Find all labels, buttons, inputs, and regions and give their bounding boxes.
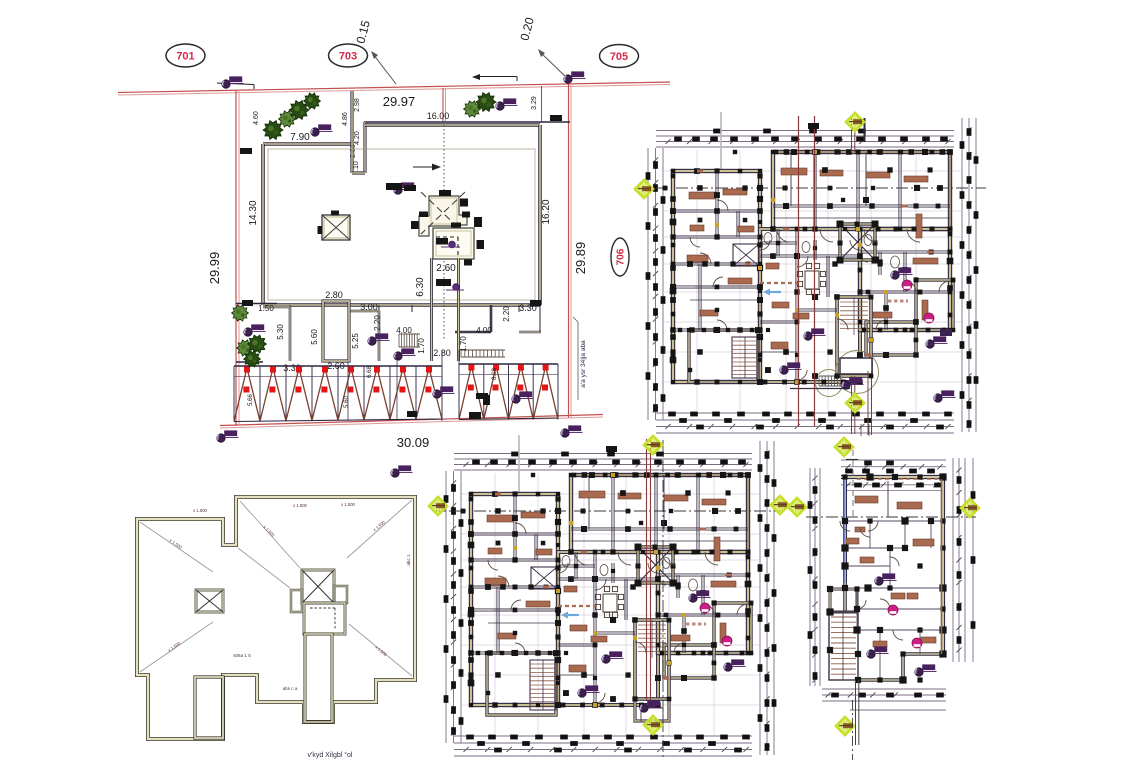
building bottom wall [263,303,540,307]
entrance tower [837,297,871,376]
svg-text:29.97: 29.97 [383,94,416,109]
grey gridline vertical [518,435,520,494]
blue arrow [766,291,781,293]
exterior wall upper block [571,475,748,552]
plot boundary left (red) [235,90,237,426]
stair hatch near entry [398,334,400,347]
centreline horizontal [636,187,986,189]
exterior wall upper block [773,152,950,229]
svg-text:3.00: 3.00 [360,302,378,312]
svg-text:x 1.500: x 1.500 [193,508,207,513]
closet X left block [733,244,759,266]
boundary stub 703 (red) [442,88,444,122]
label ellipse 705 [600,45,639,68]
side plan centre verticals bottom [855,680,857,745]
svg-text:14.30: 14.30 [248,200,259,225]
beds middle [569,665,586,672]
side floor plan group (bottom-right) [788,438,979,760]
exterior wall right block [658,552,748,653]
exterior wall column rows [774,150,779,155]
exterior wall left block [471,494,558,705]
building inner face line [268,149,535,300]
svg-text:5.60: 5.60 [344,396,350,408]
svg-text:5.30: 5.30 [276,324,285,340]
side plan arcs [860,527,870,537]
survey marker bottom-right [561,429,569,437]
building left wall [261,144,265,305]
svg-text:7.90: 7.90 [290,132,310,143]
survey marker inside top [311,128,319,136]
beds upper rooms [781,168,807,175]
entrance tower stair [638,624,666,626]
svg-text:4.60: 4.60 [253,111,260,125]
svg-text:v'kyd Xilgbl °ol: v'kyd Xilgbl °ol [308,751,353,759]
svg-text:2.20: 2.20 [502,306,511,322]
beds left block [689,192,716,199]
parking extension verticals [347,361,349,420]
survey marker bottom-left [217,434,225,442]
svg-text:2.20: 2.20 [373,315,382,331]
svg-text:29.89: 29.89 [573,242,588,275]
parking row 1 frame [234,365,442,367]
interior walls right block [860,250,950,252]
svg-text:3.29: 3.29 [531,96,538,110]
bottom-left inner block [689,330,758,382]
side plan dim cols left [809,468,811,686]
site plan group [118,16,670,450]
roof plan group [137,497,415,759]
survey marker below stair [394,352,402,360]
survey marker top-right trees [496,102,504,110]
roof cross square with X [302,570,334,603]
survey marker 5.25 [368,337,376,345]
label ellipse 706 (rotated) [611,238,629,276]
svg-text:4.00: 4.00 [476,326,492,335]
upper floor plan (top-right) [636,112,986,435]
entrance porch circles [836,351,879,394]
tower cross plus-shape [419,196,467,236]
svg-text:705: 705 [610,51,628,63]
extension line clutter [664,170,961,172]
dotted centreline [443,125,445,340]
exterior wall middle block [760,229,860,382]
door arcs [777,229,790,242]
survey marker near 705 [564,75,572,83]
svg-text:703: 703 [339,51,357,63]
side plan interior walls [887,481,889,517]
svg-text:a'a ysr 34|ja aba: a'a ysr 34|ja aba [580,340,587,388]
survey marker top-left [222,80,230,88]
svg-text:1.70: 1.70 [459,336,468,352]
upper plan markers [846,113,864,131]
small brown dash accents [495,493,501,496]
far right room [916,280,953,330]
exterior wall column rows [572,473,577,478]
label ellipse 701 [166,44,205,67]
svg-text:2.60: 2.60 [436,263,456,274]
parking row 2 frame [459,363,558,365]
bay dividers bottom [289,305,291,312]
extension line clutter [462,493,759,495]
site trees top-right pair [464,101,481,117]
centreline horizontal [434,510,784,512]
svg-text:29.99: 29.99 [207,252,222,285]
svg-text:2.80: 2.80 [325,290,343,300]
bathroom fixtures [764,233,772,244]
roof hip diagonals [140,522,213,572]
brown dashed corridor line [558,605,598,607]
svg-text:30.09: 30.09 [397,435,430,450]
north arrow [413,166,439,168]
entrance tower [635,620,669,699]
yellow accents at junctions [569,521,573,525]
brown tint on exterior walls [571,474,748,476]
entrance porch rect [840,358,872,374]
roof outline [137,497,415,739]
extra middle walls [595,631,635,633]
svg-text:abs c a: abs c a [283,686,298,691]
leader near 705 [480,76,517,78]
beds right block [711,581,736,587]
survey marker center [394,186,402,194]
far right room [714,603,751,653]
leader 0.15 [373,54,396,84]
interior walls right block [658,573,748,575]
black rect under tower [436,279,451,286]
interior walls upper block [611,475,613,552]
survey marker parking 2 [433,390,441,398]
interior walls middle [558,577,658,579]
side plan stair block [829,612,858,680]
side plan dim rows top [841,459,946,461]
svg-text:5.66: 5.66 [248,394,254,406]
floor plan dimension rows bottom [454,735,752,737]
svg-text:s06a 1 5: s06a 1 5 [233,653,251,658]
leader near 701 [217,83,254,85]
svg-text:16.00: 16.00 [427,111,450,121]
floor plan dimension cols right [759,441,761,755]
grey gridline vertical [720,112,722,171]
tower cross black squares [439,190,451,196]
svg-text:8.08: 8.08 [492,368,498,380]
bay walls khaki [289,307,292,361]
roof small box with X [196,590,223,612]
central cross box with X [840,224,875,260]
marker above roof plan [391,469,399,477]
column squares [771,150,775,154]
svg-text:6.30: 6.30 [415,277,426,297]
svg-text:5.25: 5.25 [351,333,360,349]
floor plan dimension cols left [647,148,649,420]
svg-text:1.50: 1.50 [258,304,274,313]
floor plan dimension cols right [961,118,963,432]
side plan exterior walls [841,475,943,479]
plot boundary right (red) [568,84,570,418]
interior walls upper block [813,152,815,229]
ground plan markers [644,436,662,454]
blue arrow [564,614,579,616]
roof lower box with dashed line [304,603,345,634]
building right wall [538,125,542,305]
brown tint on exterior walls [773,151,950,153]
svg-text:x 1.500: x 1.500 [293,503,307,508]
side plan centreline [806,516,976,518]
exterior wall right block [860,229,950,330]
roof tower shaft [305,634,332,722]
svg-text:x 1.500: x 1.500 [341,502,355,507]
closet X left block [531,567,557,589]
stair bottom-left [732,337,758,378]
side plan blue line [843,479,845,583]
right lower room [664,645,714,678]
svg-text:5.60: 5.60 [310,329,319,345]
svg-text:6.68: 6.68 [367,366,373,378]
right lower room [866,322,916,355]
label ellipse 703 [329,44,368,67]
beds right block [913,258,938,264]
dining table and chairs [805,271,819,289]
entrance steps [819,375,841,377]
side plan dim rows bottom [822,688,946,690]
side plan bottom walls [858,678,903,682]
bathroom fixtures [562,556,570,567]
stair bottom-left [530,660,556,710]
floor plan dimension rows bottom [656,412,954,414]
entrance tower stair [840,301,868,303]
svg-text:701: 701 [176,51,194,63]
central cross box with X [638,547,673,583]
left planting bed [236,303,277,305]
svg-text:16.20: 16.20 [541,199,552,224]
small brown dash accents [697,170,703,173]
black rects site plan [550,115,562,121]
side plan markers [875,577,883,585]
svg-text:abc 1: abc 1 [406,554,411,566]
ramp hatch right of entry [461,349,505,351]
left-center shaft 2.60x5.60 [323,301,349,361]
plot boundary top (red) [118,82,670,93]
side plan yg markers [835,438,853,456]
beds left block [487,515,514,522]
brown dashed corridor line [760,282,800,284]
interior walls left block [673,209,760,211]
svg-text:4.86: 4.86 [342,112,349,126]
side plan column squares [842,474,847,479]
floor plan dimension rows top [656,130,954,132]
exterior wall middle block [558,552,658,705]
building outline upper-right [365,123,540,127]
dining table and chairs [603,594,617,612]
roof stair rect [195,677,223,738]
interior walls left block [471,532,558,534]
svg-text:1.70: 1.70 [417,338,426,354]
parking black rects [483,395,490,405]
column squares [569,473,573,477]
site trees left beds [232,305,249,321]
floor plan dimension rows top [454,453,752,455]
roof cross wings [291,590,302,612]
door arcs [575,552,588,565]
entrance shaft extension [635,699,669,721]
parking row 1 stalls and chevrons [233,366,235,422]
svg-text:706: 706 [616,248,627,265]
extra middle walls [797,308,837,310]
entry shaft 6.30 walls [430,258,433,361]
survey marker left bed [244,328,252,336]
leader 0.20 [540,52,568,79]
right lower bay lines [490,305,492,332]
plot boundary bottom (red) [220,415,603,426]
side plan top dashed vertical [852,450,854,520]
central box with X (stair core) [322,215,350,240]
section line pair right of entrance [867,371,869,435]
side plan door arcs pair [840,521,850,531]
upper plan maroon section lines [798,116,800,426]
building outline main [263,142,352,146]
beds upper rooms [579,491,605,498]
ground plan vertical centreline [662,440,664,757]
tower cross dashed X [421,192,465,234]
north line 16.00 (navy) [364,121,570,123]
boundary stub purple 705 [541,86,543,122]
upper plan annotation squares [808,123,819,129]
exterior wall left block [673,171,760,382]
bottom-left inner block [487,653,556,715]
site trees top-left cluster [263,121,283,140]
svg-text:2.98: 2.98 [354,98,361,112]
survey marker parking right [512,395,520,403]
floor plan dimension cols left [445,471,447,743]
svg-text:4.20: 4.20 [354,131,361,145]
yellow accents at junctions [771,198,775,202]
beds middle [771,342,788,349]
side plan right wall brown tint [941,479,943,654]
side plan dim cols right [952,458,954,662]
ground plan annotation squares [606,446,617,452]
ground floor plan (bottom-center) [434,435,784,756]
side plan brown dash row [857,478,940,480]
side plan beds [855,496,878,503]
tower lower box 2.60 [433,228,474,259]
interior walls middle [760,254,860,256]
ground plan maroon section lines [646,439,648,700]
